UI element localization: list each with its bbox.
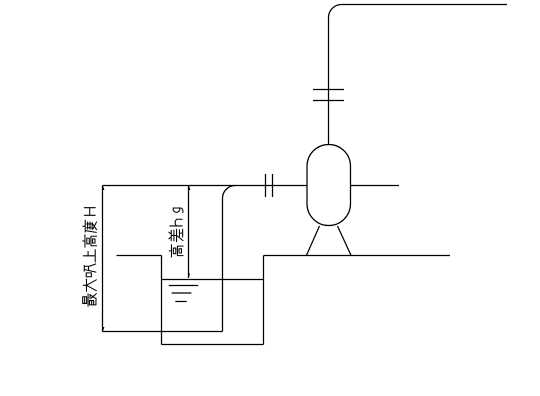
dimension H top arrow (102, 186, 104, 190)
water surface line (162, 279, 264, 281)
discharge flange upper line (313, 89, 344, 91)
tank right wall (263, 256, 265, 345)
discharge pipe top horizontal run (342, 4, 508, 6)
label 最大吸上高度H (rotated, max suction height H) (83, 208, 97, 307)
bottom extension line of dimension H (103, 331, 223, 333)
dimension hg top arrow (188, 186, 190, 190)
ground line right of tank (264, 255, 451, 257)
dimension hg bottom arrow (188, 274, 190, 278)
pump body (capsule) (307, 145, 351, 226)
suction flange right line (272, 174, 274, 197)
tank bottom (162, 344, 264, 346)
discharge pipe vertical run (328, 18, 330, 146)
suction pipe bend into tank (223, 186, 236, 199)
label 高差hg (rotated, height difference hg) (169, 208, 183, 257)
water level mark line 1 (169, 285, 198, 287)
water level mark line 3 (175, 301, 186, 303)
pump left leg (307, 226, 320, 255)
suction flange left line (265, 174, 267, 197)
dimension line hg (188, 186, 190, 279)
tank left wall (161, 256, 163, 345)
suction pipe vertical drop (222, 198, 224, 331)
dimension line H (102, 186, 104, 332)
discharge pipe top bend (329, 5, 342, 18)
discharge flange lower line (313, 100, 344, 102)
pump right leg (338, 226, 352, 255)
dimension H bottom arrow (102, 327, 104, 331)
suction pipe horizontal run (with dimension extension to the left) (103, 185, 308, 187)
water level mark line 2 (172, 292, 192, 294)
discharge side stub pipe right of pump (351, 185, 400, 187)
ground ledge left of tank (117, 255, 162, 257)
